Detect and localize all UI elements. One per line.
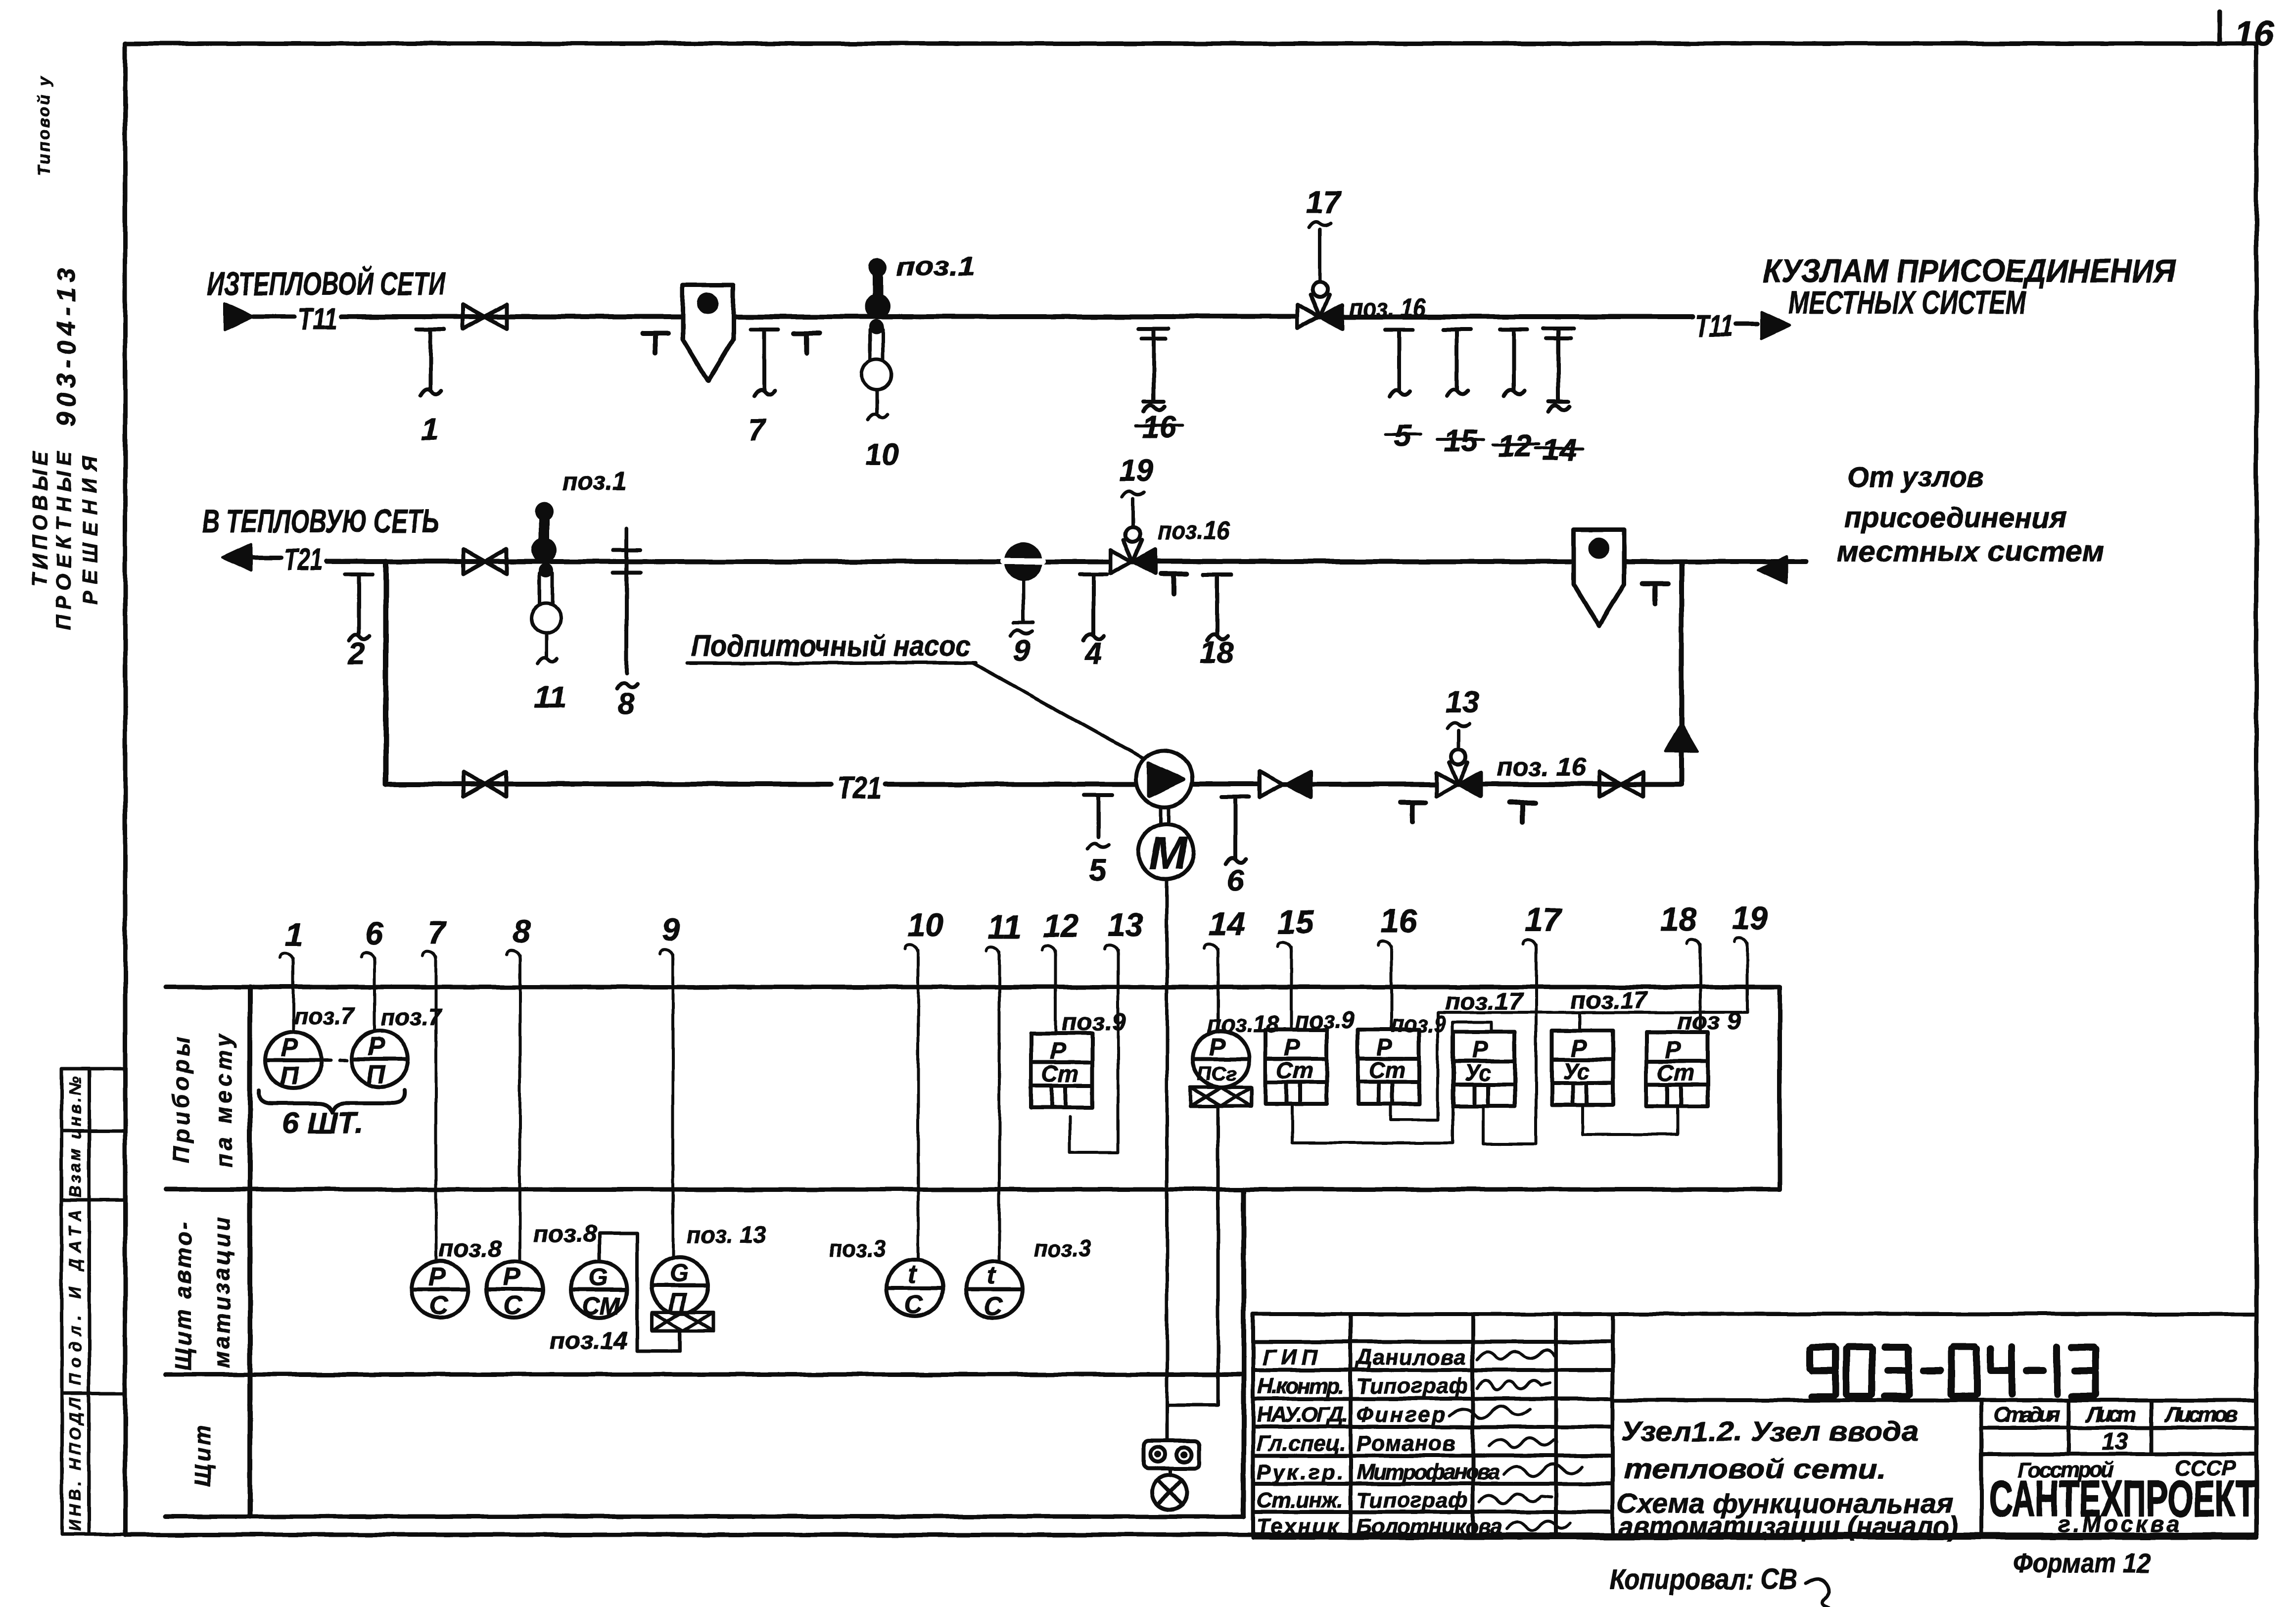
svg-text:7: 7 xyxy=(748,413,766,447)
svg-text:8: 8 xyxy=(617,687,635,721)
svg-text:поз.1: поз.1 xyxy=(562,467,626,496)
svg-text:поз.17: поз.17 xyxy=(1571,988,1648,1014)
wire W2 box2 to box4 top xyxy=(1292,1022,1492,1143)
svg-text:поз.3: поз.3 xyxy=(829,1236,886,1262)
svg-text:Щит: Щит xyxy=(189,1425,215,1487)
page number tick xyxy=(2218,12,2222,44)
instrument G-CM (G/СМ) xyxy=(571,1262,627,1318)
svg-text:поз.16: поз.16 xyxy=(1158,517,1230,545)
svg-text:поз.9: поз.9 xyxy=(1062,1009,1126,1036)
signature 3 xyxy=(1450,1406,1530,1418)
tap 16 xyxy=(1139,329,1169,412)
svg-text:ИНВ. НПОДЛ: ИНВ. НПОДЛ xyxy=(66,1397,84,1531)
lamp HL1 xyxy=(1152,1475,1187,1510)
wire bypass pipe left xyxy=(386,782,831,787)
svg-text:Взам инв.№: Взам инв.№ xyxy=(66,1076,84,1197)
wire T11 stub left xyxy=(253,315,294,319)
svg-text:поз.18: поз.18 xyxy=(1207,1011,1279,1038)
flow arrow T21 outlet xyxy=(223,544,251,571)
signature 5 xyxy=(1504,1464,1582,1476)
svg-text:СМ: СМ xyxy=(582,1292,621,1320)
svg-text:Данилова: Данилова xyxy=(1355,1345,1466,1370)
tap 7 xyxy=(750,330,778,396)
band row line top xyxy=(166,985,1780,990)
svg-text:МЕСТНЫХ СИСТЕМ: МЕСТНЫХ СИСТЕМ xyxy=(1788,284,2027,321)
svg-text:ИЗТЕПЛОВОЙ СЕТИ: ИЗТЕПЛОВОЙ СЕТИ xyxy=(207,265,446,302)
flow arrow T11 outlet xyxy=(1761,312,1790,339)
svg-text:Ст: Ст xyxy=(1042,1061,1078,1087)
svg-text:9: 9 xyxy=(1013,634,1031,668)
dirt trap F1 xyxy=(683,285,733,381)
svg-text:Рук.гр.: Рук.гр. xyxy=(1257,1460,1343,1484)
svg-text:поз.1: поз.1 xyxy=(896,252,975,281)
flow arrow T11 inlet xyxy=(225,303,253,330)
wire T21 stub left xyxy=(253,556,281,560)
instrument box PUs-2 xyxy=(1552,1031,1613,1105)
svg-text:Лист: Лист xyxy=(2085,1403,2136,1427)
svg-text:Щит авто-: Щит авто- xyxy=(170,1222,196,1371)
svg-text:15: 15 xyxy=(1277,903,1314,940)
svg-text:Подпиточный насос: Подпиточный насос xyxy=(691,629,971,662)
svg-text:t: t xyxy=(987,1261,997,1290)
svg-text:Т21: Т21 xyxy=(837,771,882,805)
svg-text:П: П xyxy=(280,1062,299,1090)
instrument PC-8 (Р/С) xyxy=(486,1261,543,1318)
svg-text:5: 5 xyxy=(1394,419,1412,453)
margin stamp table xyxy=(62,1069,125,1534)
brace 6 шт xyxy=(259,1090,405,1112)
svg-text:поз.9: поз.9 xyxy=(1295,1007,1355,1034)
svg-text:2: 2 xyxy=(348,637,365,671)
band right edge lower xyxy=(1241,1189,1246,1516)
svg-text:Фингер: Фингер xyxy=(1357,1403,1446,1427)
wire to lamp xyxy=(1169,1468,1172,1475)
svg-text:13: 13 xyxy=(2102,1429,2128,1455)
wire W4 box5 to box6 xyxy=(1583,1106,1678,1134)
svg-text:9: 9 xyxy=(662,911,680,948)
tap 2 xyxy=(345,574,373,641)
svg-text:6 ШТ.: 6 ШТ. xyxy=(282,1106,364,1139)
svg-text:11: 11 xyxy=(534,680,566,714)
svg-text:поз.14: поз.14 xyxy=(550,1328,628,1354)
svg-text:Гл.спец.: Гл.спец. xyxy=(1257,1431,1346,1456)
svg-text:14: 14 xyxy=(1543,433,1577,467)
wire pipe T21 main xyxy=(327,559,1806,564)
tap 1 xyxy=(417,330,444,396)
title block grid xyxy=(1253,1314,2256,1538)
svg-text:11: 11 xyxy=(987,908,1022,945)
control valve 19 pos.16 xyxy=(1111,527,1155,573)
svg-text:НАУ.ОГД.: НАУ.ОГД. xyxy=(1257,1403,1348,1427)
svg-text:6: 6 xyxy=(1227,863,1244,898)
svg-text:Листов: Листов xyxy=(2164,1403,2238,1427)
svg-text:8: 8 xyxy=(513,913,531,950)
wire pipe T11 main xyxy=(341,314,1692,319)
tap T a xyxy=(643,333,668,353)
tap 5 bypass xyxy=(1084,795,1112,837)
instrument box PSt-12 xyxy=(1031,1033,1092,1107)
svg-text:Ст.инж.: Ст.инж. xyxy=(1257,1488,1343,1512)
svg-text:Романов: Романов xyxy=(1357,1431,1455,1456)
instrument PI-2 (Р/П) xyxy=(352,1031,408,1087)
svg-text:присоединения: присоединения xyxy=(1844,502,2066,534)
svg-text:па месту: па месту xyxy=(211,1033,236,1168)
svg-text:Копировал: СВ: Копировал: СВ xyxy=(1609,1563,1797,1596)
wire bypass pipe right of pump xyxy=(1192,782,1682,787)
svg-text:М: М xyxy=(1149,827,1188,879)
svg-text:13: 13 xyxy=(1107,906,1143,943)
svg-text:Стадия: Стадия xyxy=(1994,1403,2061,1427)
wire pump shaft xyxy=(1160,806,1168,824)
svg-text:16: 16 xyxy=(1380,902,1417,939)
svg-text:местных систем: местных систем xyxy=(1837,535,2104,567)
svg-text:матизации: матизации xyxy=(209,1217,234,1368)
tap 15 line1 xyxy=(1443,330,1471,396)
valve V3 xyxy=(463,772,507,797)
instrument PSg circle (Р/ПСг) xyxy=(1193,1031,1249,1087)
signature 1 xyxy=(1477,1350,1554,1360)
signature flourish xyxy=(1806,1578,1829,1607)
instrument G-P (G/П) xyxy=(652,1257,708,1314)
band row line mid1 xyxy=(166,1187,1780,1192)
svg-text:G: G xyxy=(589,1264,608,1291)
label 9 xyxy=(1010,630,1032,635)
wire actuator stem 19 xyxy=(1131,499,1135,527)
signature 2 xyxy=(1477,1380,1549,1390)
signature 4 xyxy=(1489,1438,1553,1448)
flow meter 9 xyxy=(1003,544,1043,622)
doc number 903-04-13 seven segment xyxy=(1810,1347,2096,1396)
motor M1 xyxy=(1138,824,1194,879)
svg-text:С: С xyxy=(984,1292,1003,1321)
instrument TC-10 (t/С) xyxy=(887,1260,943,1316)
signature 6 xyxy=(1479,1494,1551,1504)
svg-text:Н.контр.: Н.контр. xyxy=(1258,1374,1344,1398)
svg-text:7: 7 xyxy=(427,914,447,951)
svg-text:16: 16 xyxy=(1142,410,1176,444)
tap T c xyxy=(1161,574,1186,594)
svg-text:Р: Р xyxy=(368,1032,385,1061)
svg-text:ТИПОВЫЕ: ТИПОВЫЕ xyxy=(28,451,51,586)
control valve 17 pos.16 xyxy=(1298,282,1342,329)
instrument PI-1 (Р/П) xyxy=(265,1032,322,1088)
svg-text:19: 19 xyxy=(1732,899,1768,936)
valve V2 xyxy=(463,549,507,574)
svg-text:Ст: Ст xyxy=(1369,1057,1406,1083)
wire motor signal down xyxy=(1166,879,1169,1441)
band row line mid2 xyxy=(166,1372,1244,1377)
svg-text:12: 12 xyxy=(1043,907,1079,944)
svg-text:поз.7: поз.7 xyxy=(381,1004,442,1031)
instrument TC-11 (t/С) xyxy=(966,1261,1023,1318)
svg-text:18: 18 xyxy=(1660,900,1697,937)
wire W1 box3 to stem19 and box5 xyxy=(1391,1012,1747,1120)
hatch box under PSg xyxy=(1190,1087,1252,1106)
control valve 13 pos.16 xyxy=(1436,750,1481,796)
valve V1 xyxy=(463,304,507,329)
svg-text:14: 14 xyxy=(1209,905,1245,942)
svg-text:С: С xyxy=(429,1291,449,1320)
svg-text:Подл. И ДАТА: Подл. И ДАТА xyxy=(66,1210,84,1385)
svg-text:автоматизации (начало): автоматизации (начало) xyxy=(1619,1511,1958,1542)
svg-text:Типограф: Типограф xyxy=(1357,1488,1468,1512)
instrument box PSt-15 xyxy=(1265,1030,1327,1104)
tap 12 line1 xyxy=(1500,330,1528,396)
svg-text:РЕШЕНИЯ: РЕШЕНИЯ xyxy=(78,456,101,605)
svg-text:поз.8: поз.8 xyxy=(438,1236,502,1262)
svg-text:12: 12 xyxy=(1498,429,1532,463)
wire actuator stem 17 xyxy=(1318,230,1322,282)
flow arrow from local systems xyxy=(1758,557,1787,583)
svg-text:С: С xyxy=(904,1290,924,1319)
svg-text:От узлов: От узлов xyxy=(1847,461,1983,493)
terminal box xyxy=(1144,1441,1199,1468)
instrument PC-7 (Р/С) xyxy=(412,1261,468,1318)
svg-text:10: 10 xyxy=(907,906,944,943)
tap T e xyxy=(1400,803,1426,822)
svg-text:17: 17 xyxy=(1306,186,1341,220)
svg-text:ПРОЕКТНЫЕ: ПРОЕКТНЫЕ xyxy=(52,451,75,630)
wire bypass pipe mid xyxy=(886,782,1136,787)
tap 6 xyxy=(1221,797,1249,863)
svg-text:Болотникова: Болотникова xyxy=(1357,1514,1502,1539)
svg-text:4: 4 xyxy=(1083,637,1101,671)
wire leader to pump xyxy=(972,663,1148,761)
tap T f xyxy=(1510,803,1536,822)
svg-text:903-04-13: 903-04-13 xyxy=(52,268,81,426)
flow arrow up xyxy=(1665,723,1698,752)
instrument box PSt-16 xyxy=(1358,1030,1419,1104)
tap 18 xyxy=(1203,574,1231,641)
svg-text:17: 17 xyxy=(1525,901,1563,938)
svg-text:Р: Р xyxy=(503,1263,520,1291)
svg-text:Типовой у: Типовой у xyxy=(35,76,53,176)
wire stub to arrow xyxy=(1735,322,1757,327)
svg-text:t: t xyxy=(907,1260,917,1288)
hatch box under G-P xyxy=(652,1312,713,1331)
svg-text:10: 10 xyxy=(865,438,899,472)
svg-text:Типограф: Типограф xyxy=(1357,1374,1468,1398)
band box right edge xyxy=(1778,987,1782,1189)
svg-text:Р: Р xyxy=(428,1263,446,1291)
tap T b xyxy=(794,333,819,353)
svg-text:Митрофанова: Митрофанова xyxy=(1357,1460,1500,1484)
tap 5 line1 xyxy=(1385,330,1413,396)
tap 14 line1 xyxy=(1544,329,1573,412)
svg-text:КУЗЛАМ ПРИСОЕДИНЕНИЯ: КУЗЛАМ ПРИСОЕДИНЕНИЯ xyxy=(1763,252,2176,289)
svg-text:Ус: Ус xyxy=(1563,1058,1590,1084)
svg-text:С: С xyxy=(504,1291,523,1320)
svg-text:5: 5 xyxy=(1089,853,1107,888)
svg-text:19: 19 xyxy=(1119,454,1153,488)
band label separator xyxy=(247,987,252,1516)
svg-text:поз.3: поз.3 xyxy=(1034,1236,1091,1262)
svg-text:Т11: Т11 xyxy=(1694,309,1733,343)
svg-text:В ТЕПЛОВУЮ СЕТЬ: В ТЕПЛОВУЮ СЕТЬ xyxy=(202,503,439,539)
pressure gauge 10 xyxy=(862,319,891,420)
thermometer pos.1 line2 xyxy=(531,502,557,563)
svg-text:1: 1 xyxy=(422,412,438,446)
svg-text:Т11: Т11 xyxy=(298,302,337,336)
svg-text:Ус: Ус xyxy=(1464,1060,1491,1086)
orifice 8 xyxy=(613,528,641,689)
wire actuator stem 13 xyxy=(1457,730,1460,750)
svg-text:6: 6 xyxy=(365,915,384,952)
svg-text:15: 15 xyxy=(1444,424,1478,458)
svg-text:ПСг: ПСг xyxy=(1197,1063,1236,1085)
check valve xyxy=(1260,771,1311,797)
tap 4 xyxy=(1079,574,1107,641)
svg-text:Ст: Ст xyxy=(1657,1060,1694,1086)
wire PSg output down xyxy=(1168,1106,1218,1405)
svg-text:поз. 16: поз. 16 xyxy=(1496,753,1587,782)
pump P1 xyxy=(1136,751,1192,807)
signature 7 xyxy=(1507,1521,1570,1530)
band row line bottom xyxy=(166,1514,1244,1519)
svg-text:16: 16 xyxy=(2234,14,2274,53)
svg-text:Формат 12: Формат 12 xyxy=(2013,1547,2151,1578)
thermometer pos.1 line1 xyxy=(865,258,890,319)
instrument box PSt-18 xyxy=(1646,1032,1708,1106)
svg-text:Р: Р xyxy=(281,1034,298,1062)
svg-text:13: 13 xyxy=(1446,685,1480,719)
svg-text:Т21: Т21 xyxy=(284,543,323,577)
wire branch down to bypass xyxy=(383,562,389,784)
svg-text:Узел1.2. Узел ввода: Узел1.2. Узел ввода xyxy=(1622,1416,1919,1447)
pressure gauge 11 xyxy=(531,563,561,663)
tap T d xyxy=(1642,584,1668,604)
wire pos.14 loop xyxy=(600,1233,680,1351)
svg-text:18: 18 xyxy=(1200,636,1234,670)
wire riser to return line xyxy=(1679,562,1684,784)
svg-text:П: П xyxy=(367,1060,386,1089)
svg-text:тепловой сети.: тепловой сети. xyxy=(1624,1453,1886,1484)
svg-text:Техник: Техник xyxy=(1257,1514,1340,1539)
dirt trap F2 xyxy=(1574,530,1624,626)
label 5 bypass xyxy=(1087,844,1109,849)
svg-text:поз.8: поз.8 xyxy=(533,1221,597,1247)
svg-text:Приборы: Приборы xyxy=(168,1037,194,1163)
svg-text:Ст: Ст xyxy=(1276,1057,1313,1083)
wire dashes between gauges xyxy=(324,1059,352,1062)
svg-text:G: G xyxy=(669,1259,689,1287)
valve V4 xyxy=(1599,772,1643,797)
svg-text:поз. 13: поз. 13 xyxy=(687,1222,766,1248)
svg-text:ГИП: ГИП xyxy=(1263,1345,1317,1370)
svg-text:поз.7: поз.7 xyxy=(294,1003,355,1030)
svg-text:поз. 16: поз. 16 xyxy=(1349,294,1426,323)
svg-text:1: 1 xyxy=(285,916,303,953)
instrument box PUs-1 xyxy=(1453,1032,1515,1106)
